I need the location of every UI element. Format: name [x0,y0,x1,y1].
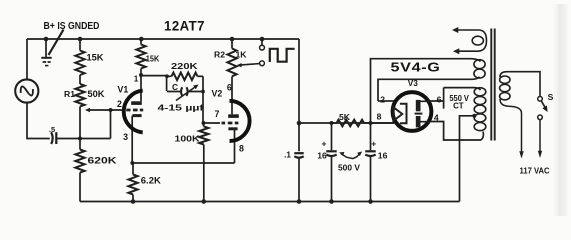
junction filter out [297,121,302,126]
V3 plate bars [416,100,421,111]
arrow through C [176,86,197,101]
5V filament winding [474,60,485,69]
svg-text:6.2K: 6.2K [141,176,162,186]
svg-text:4: 4 [434,112,439,122]
switch S terminal upper [538,97,543,102]
svg-text:.1: .1 [284,150,291,159]
svg-text:+: + [321,139,326,149]
wire cathode bus [132,162,234,164]
wire V2 grid stub [204,122,221,124]
svg-text:500 V: 500 V [338,163,360,173]
junction cap16a bottom [329,199,334,204]
svg-text:5K: 5K [339,112,351,122]
wire V3 pin6 net [430,88,443,101]
wire V1 cathode lead [131,116,133,163]
triode V2 envelope [230,101,250,141]
svg-text:5V4-G: 5V4-G [391,61,441,75]
wire top B+ rail [27,38,299,40]
wire switch to line [539,120,541,152]
svg-text:B+ IS GNDED: B+ IS GNDED [44,21,100,32]
junction 15K-2 top [139,37,144,42]
wire center tap to B- [460,116,475,202]
pointer line to ground [49,30,64,56]
rectifier V3 envelope [393,92,432,131]
wire V1 plate lead [140,75,142,101]
svg-text:C: C [172,82,178,92]
resistor R1 50K pot [75,84,84,106]
svg-text:CT: CT [453,102,464,111]
primary bottom lead [500,99,522,152]
500V measurement arrows [341,153,361,159]
ground [45,39,47,57]
svg-text:6: 6 [227,83,232,93]
svg-text:16: 16 [378,150,388,160]
svg-text:8: 8 [377,112,382,122]
svg-text:2: 2 [117,99,122,109]
wire filter line [299,122,394,124]
junction cap16a top [330,121,334,125]
svg-text:100K: 100K [175,133,200,143]
AC source generator [15,79,38,102]
wire V3 pin4 net [430,122,481,141]
triode V2 cathode [228,127,237,130]
junction 15K-1 top [78,37,83,42]
capacitor .1 [298,123,300,151]
switch S blade [542,101,546,108]
svg-text:3: 3 [123,132,128,142]
capacitor C variable [181,87,182,96]
svg-text:R1: R1 [64,89,75,99]
wire plate node to box [141,75,167,77]
svg-text:50K: 50K [88,89,106,99]
capacitor 16 first [331,123,333,150]
triode V1 plate [131,101,142,105]
svg-text:+: + [371,138,376,148]
wire C branch [167,91,203,93]
resistor 15K-1 [75,51,84,76]
square wave symbol [270,49,295,62]
resistor 220K [167,75,172,77]
capacitor 16 second [370,123,372,150]
wire V3 pin8 stub [371,122,394,124]
heater winding lead 1 [454,30,487,51]
terminal upper [260,45,265,50]
svg-text:7: 7 [215,109,220,119]
svg-text:15K: 15K [87,52,105,62]
wire output stub [261,39,263,45]
svg-text:8: 8 [239,143,244,153]
svg-text:1K: 1K [236,50,248,60]
junction cathode bus [130,161,134,165]
junction .1 bottom [297,199,302,204]
junction wiper node [109,108,113,112]
wire rail corner down [298,39,300,123]
svg-text:R2: R2 [214,50,225,60]
junction center tap [472,114,476,118]
junction V2 grid node [202,121,206,125]
junction 220K left [165,74,169,78]
junction R2 top [230,37,235,42]
wire 5V winding bottom lead [378,79,472,101]
wire wiper R2 [241,64,260,65]
wire wiper return riser [110,110,112,139]
resistor 100K [203,123,205,127]
triode V2 plate [228,114,239,118]
wire AC source top lead [26,39,28,79]
switch S terminal lower [538,115,543,120]
wire 5V winding top lead [371,59,472,123]
primary top lead [500,72,540,97]
resistor 5K [332,122,337,124]
node V1 plate junction [139,73,143,77]
svg-text:V2: V2 [212,89,223,99]
svg-text:2: 2 [380,95,385,105]
resistor 15K-2 [140,39,142,45]
V3 plate stubs [421,101,430,121]
junction cap16b top [369,121,373,125]
triode V1 grid [126,109,143,112]
svg-text:V3: V3 [408,78,419,88]
svg-text:16: 16 [317,150,327,160]
svg-text:4-15 µµf: 4-15 µµf [158,102,204,112]
terminal lower [260,61,265,66]
junction output tap [260,37,265,42]
wire 550V box top [444,87,474,89]
wire 550V box left lower [443,101,445,109]
primary winding [500,76,510,83]
triode V1 envelope [124,91,143,133]
wire V2 cathode lead [234,129,236,163]
heater winding lead 2 [453,48,459,54]
resistor 6.2K [132,163,134,175]
svg-text:220K: 220K [171,61,198,71]
svg-text:6: 6 [437,95,442,105]
svg-text:117 VAC: 117 VAC [520,167,550,176]
heater winding loop [472,36,483,45]
svg-text:1: 1 [134,75,139,84]
transformer core [491,29,494,141]
svg-text:12AT7: 12AT7 [164,18,205,33]
svg-text:15K: 15K [146,53,160,63]
wire bottom rail [80,201,460,203]
V3 cathode bracket [400,104,407,124]
resistor R2 1K [231,39,233,49]
svg-text:V1: V1 [118,85,129,95]
svg-text:620K: 620K [88,155,118,165]
550V HV winding [474,88,486,96]
V3 filament triangle [393,107,402,121]
resistor 620K [79,139,81,150]
node A junction [78,137,82,141]
wire V3 pin2 stub [378,100,394,102]
wire box right to grid node [202,76,204,123]
wire box left [166,76,168,91]
junction 6.2K bottom [131,199,136,204]
svg-text:S: S [548,92,554,102]
R1 wiper arm [90,109,124,111]
V3 plate bridge [415,113,423,115]
junction 100K bottom [202,199,207,204]
junction cap16b bottom [368,199,373,204]
wire cap to node A [57,138,111,140]
capacitor .5 [51,132,53,144]
wire AC source bottom lead [27,104,50,139]
triode V1 cathode [132,114,141,117]
triode V2 grid [222,122,239,125]
ground junction on rail [44,37,49,42]
